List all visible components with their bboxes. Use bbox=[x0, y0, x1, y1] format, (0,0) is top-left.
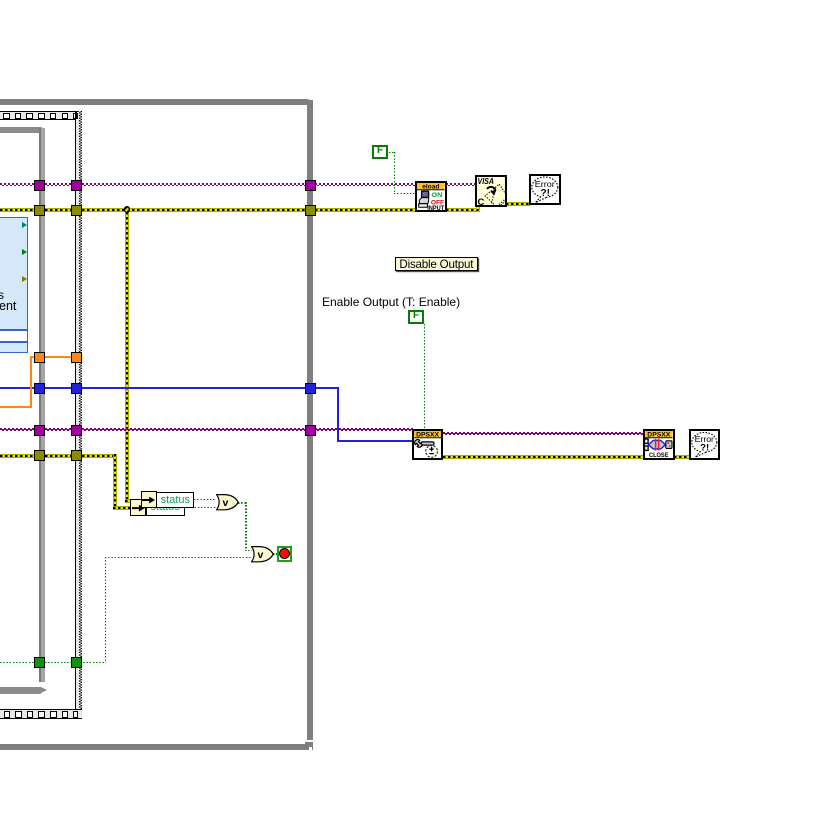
wire error cluster, segment left of inner loop bbox=[0, 208, 35, 212]
tunnel purple VISA wire 2 on while loop border bbox=[305, 425, 316, 436]
tunnel error wire on while loop border bbox=[305, 205, 316, 216]
tunnel purple VISA wire on sequence border bbox=[71, 180, 82, 191]
while loop outer: bottom-right corner step bbox=[305, 742, 313, 745]
wire dotted green F2 vertical to DPSxx bbox=[424, 324, 425, 430]
wire error cluster, segment inside while loop bbox=[82, 208, 306, 212]
tunnel purple VISA wire on inner loop border bbox=[34, 180, 45, 191]
wire purple VISA resource, segment between inner loop and sequence bbox=[45, 183, 72, 186]
wire orange horizontal (y 356.4) bbox=[30, 356, 81, 358]
event node output arrow green bbox=[22, 249, 27, 255]
event node text fragment bbox=[0, 288, 4, 302]
wire dotted green unbundle2 to OR1 bbox=[185, 507, 216, 508]
tunnel blue numeric wire on while loop border bbox=[305, 383, 316, 394]
wire error A corner into unbundle 1 bbox=[125, 499, 142, 503]
svg-text:?!: ?! bbox=[700, 443, 709, 454]
event data node row: white row bbox=[0, 330, 28, 342]
Boolean constant F2 bbox=[408, 310, 424, 324]
eload enable-input node U1 bbox=[415, 181, 447, 212]
svg-text:?!: ?! bbox=[540, 188, 549, 199]
wire dotted green long horizontal to OR2 (y 556.5) bbox=[105, 557, 252, 558]
svg-text:v: v bbox=[222, 497, 228, 509]
while loop outer: top border bbox=[0, 99, 311, 105]
wire error3 DPSxx to CLOSE (y 455) bbox=[443, 455, 644, 459]
svg-text:VISA: VISA bbox=[478, 177, 495, 186]
wire blue numeric, segment right of while loop bbox=[315, 387, 338, 389]
event node output arrow teal bbox=[22, 222, 27, 228]
svg-text:v: v bbox=[258, 549, 264, 561]
junction dot on error wire bbox=[124, 206, 131, 213]
wire purple VISA resource, segment eload to VISA Close bbox=[446, 183, 476, 186]
DPSxx close node U5 bbox=[643, 429, 675, 460]
free label 'Disable Output' bbox=[395, 257, 479, 271]
simple error handler U6 bbox=[689, 429, 720, 460]
wire purple VISA resource 2, segment to DPSxx node bbox=[315, 428, 413, 431]
event data node row: light blue bottom row bbox=[0, 342, 28, 353]
svg-text:INPUT: INPUT bbox=[427, 205, 444, 210]
wire error cluster 2, segment inside while loop bbox=[82, 454, 118, 458]
wire error cluster 2, segment between inner loop and sequence bbox=[45, 454, 72, 458]
wire dotted green OR1 output bbox=[238, 502, 246, 503]
VISA Close node U2 bbox=[475, 175, 507, 207]
DPSxx enable-output node U4 bbox=[412, 429, 443, 460]
inner loop: bottom border with pointed tip bbox=[0, 687, 41, 694]
event node text fragment 'ent' bbox=[0, 299, 16, 313]
wire error2 corner into unbundle 2 bbox=[113, 506, 132, 510]
tunnel error wire on inner loop border bbox=[34, 205, 45, 216]
wire blue numeric, segment inside while loop bbox=[82, 387, 306, 389]
wire error cluster, segment to eload node bbox=[315, 208, 416, 212]
event data node (light blue box, clipped at left) bbox=[0, 217, 28, 330]
tunnel orange numeric wire on sequence border bbox=[71, 352, 82, 363]
tunnel purple VISA wire on while loop border bbox=[305, 180, 316, 191]
tunnel purple VISA wire 2 on sequence border bbox=[71, 425, 82, 436]
loop stop conditional terminal bbox=[277, 546, 293, 563]
wire purple2 DPSxx to CLOSE (y 431.5) bbox=[443, 432, 644, 435]
OR gate 1 bbox=[216, 494, 239, 511]
wire error1 stub up into VISA bbox=[476, 204, 480, 210]
wire purple VISA resource 2, segment left of inner loop bbox=[0, 428, 35, 431]
tunnel error wire on sequence border bbox=[71, 205, 82, 216]
OR gate 2 bbox=[251, 546, 274, 563]
while loop outer: bottom border bbox=[0, 744, 313, 750]
tunnel boolean wire on sequence border bbox=[71, 657, 82, 668]
wire purple VISA resource, segment left of inner loop bbox=[0, 183, 35, 186]
wire dotted green F1: right then down then right to eload bbox=[389, 152, 396, 153]
event node output arrow olive bbox=[22, 276, 27, 282]
unbundle by name 2 (behind) bbox=[130, 499, 146, 516]
tunnel blue numeric wire on inner loop border bbox=[34, 383, 45, 394]
tunnel error wire 2 on inner loop border bbox=[34, 450, 45, 461]
inner loop: right border bbox=[39, 128, 45, 682]
unbundle by name 1 (front) bbox=[141, 491, 157, 508]
wire purple VISA resource, segment to eload node bbox=[315, 183, 416, 186]
svg-text:eload: eload bbox=[422, 184, 439, 191]
tunnel blue numeric wire on sequence border bbox=[71, 383, 82, 394]
wire error cluster, segment eload to VISA Close bbox=[446, 208, 480, 212]
wire blue to DPSxx bbox=[337, 440, 413, 442]
flat sequence: bottom film-strip border bbox=[0, 709, 82, 718]
tunnel boolean wire on inner loop border bbox=[34, 657, 45, 668]
flat sequence: top film-strip border bbox=[0, 111, 82, 120]
wire purple VISA resource 2, segment between inner loop and sequence bbox=[45, 428, 72, 431]
wire error cluster, segment between inner loop and sequence bbox=[45, 208, 72, 212]
free text 'Enable Output (T: Enable)' bbox=[322, 295, 460, 309]
wire error3 CLOSE to error handler 2 bbox=[674, 455, 690, 459]
wire purple VISA resource 2, segment inside while loop bbox=[82, 428, 306, 431]
wire dotted green OR2 output to stop terminal bbox=[273, 553, 278, 554]
while loop outer: right border bbox=[307, 100, 313, 740]
wire error cluster 2, segment left of inner loop bbox=[0, 454, 35, 458]
wire orange bottom stub to left edge bbox=[0, 406, 32, 408]
svg-text:C: C bbox=[478, 197, 485, 205]
svg-text:ON: ON bbox=[431, 192, 442, 199]
tunnel purple VISA wire 2 on inner loop border bbox=[34, 425, 45, 436]
tunnel error wire 2 on sequence border bbox=[71, 450, 82, 461]
Boolean constant F1 bbox=[372, 145, 388, 159]
wire blue numeric, segment left of inner loop bbox=[0, 387, 35, 389]
wire dotted green unbundle1 to OR1 bbox=[194, 499, 216, 500]
wire dotted green vertical (x 104.6) bbox=[105, 557, 106, 663]
simple error handler U3 bbox=[529, 174, 561, 206]
wire blue vertical drop bbox=[337, 387, 339, 441]
inner loop: top border (right end, rounded corner) bbox=[0, 127, 45, 133]
wire orange vertical left bbox=[30, 356, 32, 407]
wire error1 VISA to error handler (y 202) bbox=[506, 202, 530, 206]
tunnel orange numeric wire on inner loop border bbox=[34, 352, 45, 363]
wire error2 vertical B (x 113) bbox=[113, 454, 117, 511]
flat sequence: right border (inner line + checker edge) bbox=[75, 111, 77, 709]
svg-text:DPSXX: DPSXX bbox=[416, 432, 440, 439]
wire error branch vertical A (x 124.8) bbox=[125, 212, 129, 501]
wire dotted green bottom (y 661.5) bbox=[0, 662, 105, 663]
wire purple VISA resource, segment inside while loop bbox=[82, 183, 306, 186]
svg-text:DPSXX: DPSXX bbox=[647, 432, 671, 439]
wire blue numeric, segment between inner loop and sequence bbox=[45, 387, 72, 389]
svg-text:CLOSE: CLOSE bbox=[649, 452, 668, 458]
